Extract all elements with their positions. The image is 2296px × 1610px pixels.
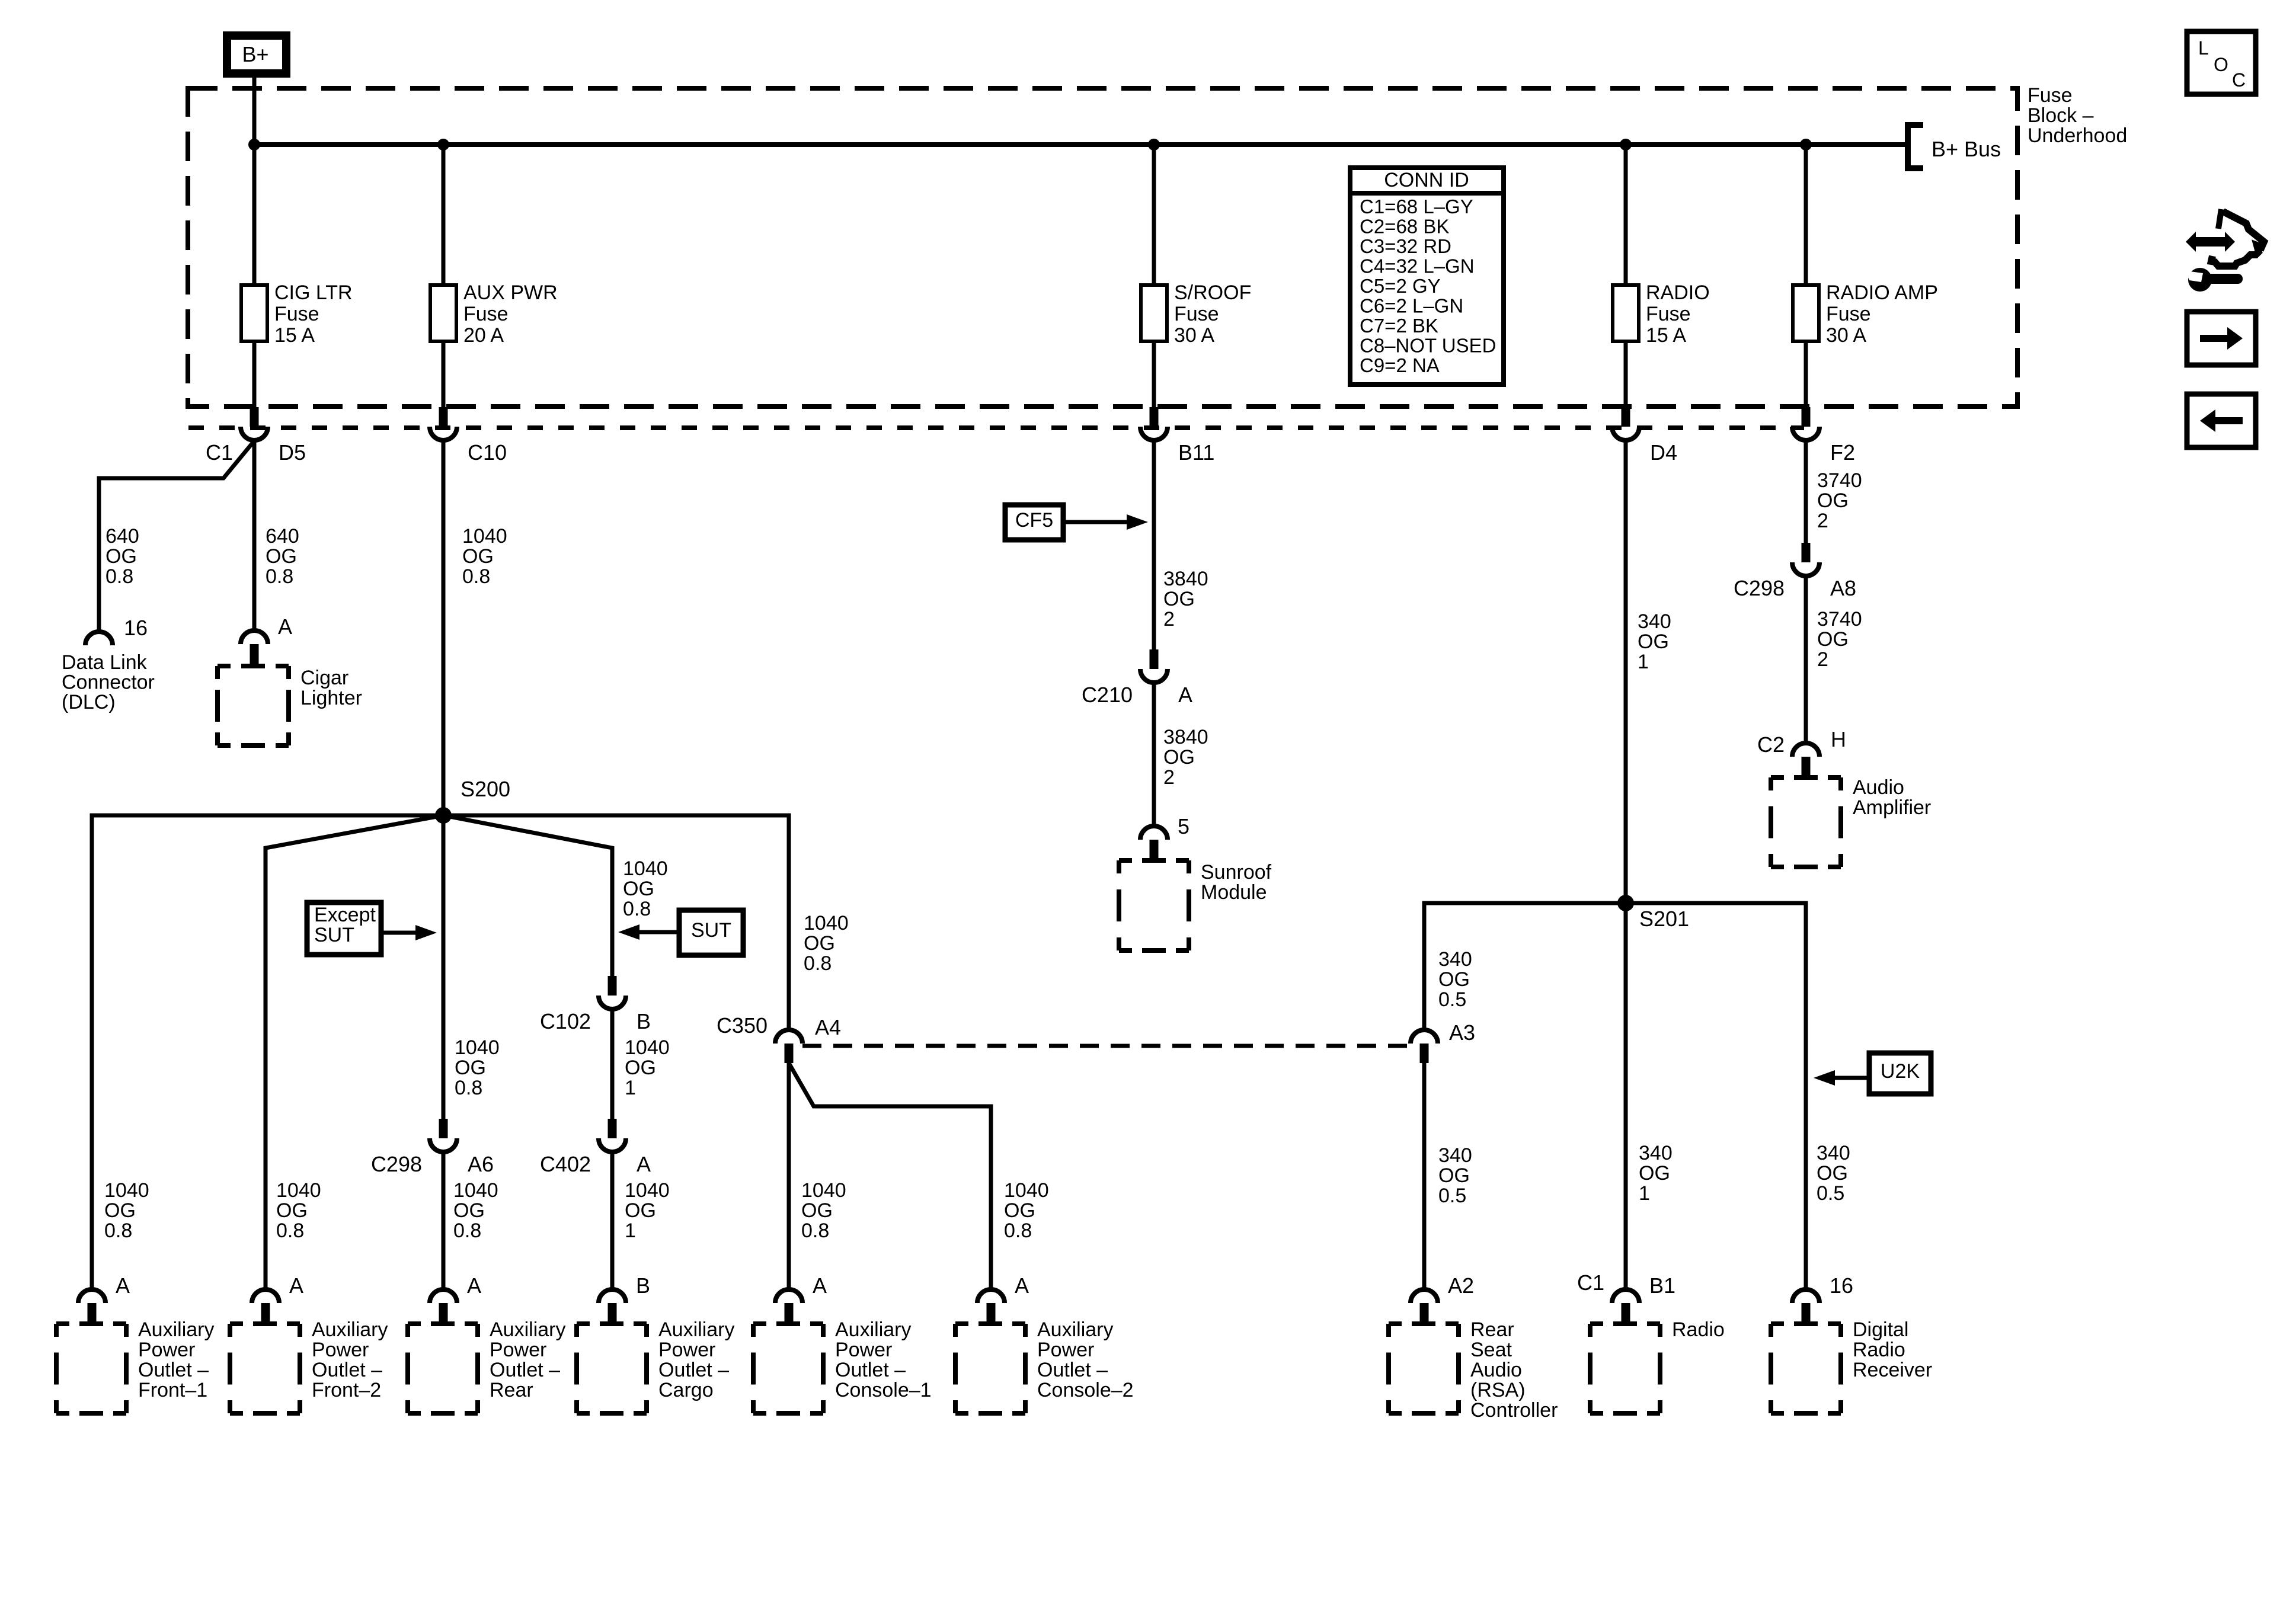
svg-text:A: A	[289, 1273, 303, 1298]
svg-text:A: A	[1015, 1273, 1029, 1298]
connector A3 pin	[1420, 1044, 1429, 1063]
connector C102/B pin	[608, 976, 617, 996]
connector C298/A6 socket arc	[430, 1138, 457, 1152]
audio amplifier box	[1771, 777, 1841, 867]
connector amp-H pin	[1802, 757, 1811, 776]
connector outlet-console-1-A pin	[785, 1303, 794, 1323]
svg-text:CONN ID: CONN ID	[1384, 169, 1469, 191]
svg-text:C102: C102	[540, 1009, 591, 1033]
CONN ID table box	[1350, 168, 1504, 385]
Except SUT tag box	[307, 902, 381, 955]
wire C298 to outlet rear	[442, 1152, 446, 1289]
connector DLC-16 socket arc	[85, 632, 113, 645]
connector outlet-front-1-A pin	[88, 1303, 97, 1323]
sunroof module box	[1119, 860, 1189, 950]
backward arrow	[2215, 417, 2243, 424]
svg-text:A: A	[813, 1273, 827, 1298]
wire RADIO fuse to connector	[1624, 341, 1628, 408]
wire B11 to C210	[1152, 441, 1156, 649]
fuse block underhood dashed box	[188, 88, 2017, 406]
svg-text:A: A	[116, 1273, 130, 1298]
B+ power feed symbol	[227, 36, 286, 73]
wire C210 to sunroof	[1152, 683, 1156, 826]
wire bus to RADIO fuse	[1624, 145, 1628, 285]
wire S200 to outlet front-2	[266, 815, 443, 1289]
svg-text:C2: C2	[1757, 732, 1785, 757]
connector C10 pin	[439, 407, 448, 427]
svg-text:A: A	[637, 1152, 651, 1176]
svg-text:CF5: CF5	[1015, 509, 1053, 532]
svg-text:A8: A8	[1830, 576, 1856, 600]
connector DRR-16 socket arc	[1792, 1289, 1819, 1303]
svg-text:H: H	[1831, 727, 1846, 751]
wire D5 to cigar lighter	[252, 441, 257, 630]
svg-text:5: 5	[1178, 814, 1189, 838]
wire S/ROOF fuse to connector	[1152, 341, 1156, 408]
connector outlet-console-1-A socket arc	[775, 1289, 802, 1303]
svg-text:O: O	[2214, 54, 2228, 75]
svg-text:A2: A2	[1448, 1273, 1474, 1298]
connector C298/A6 pin	[439, 1119, 448, 1138]
svg-text:S201: S201	[1639, 907, 1689, 931]
connector DRR-16 pin	[1802, 1303, 1811, 1323]
junction dot on B+ bus x=748	[437, 139, 449, 151]
connector C10 socket arc	[430, 427, 457, 440]
wire C102 to C402	[610, 1009, 615, 1119]
wire S201 to A3	[1424, 903, 1626, 1030]
svg-text:C298: C298	[1734, 576, 1785, 600]
vehicle service icon: double arrow	[2186, 232, 2235, 252]
connector radio-B1 socket arc	[1612, 1289, 1639, 1303]
cigar lighter box	[218, 666, 289, 745]
vehicle service icon: wrench	[2188, 268, 2212, 292]
fuse RADIO	[1613, 285, 1639, 341]
svg-text:A: A	[278, 614, 292, 639]
wire C350 to outlet console-1	[787, 1063, 791, 1289]
auxiliary power outlet rear box	[408, 1324, 478, 1413]
svg-text:A3: A3	[1449, 1020, 1475, 1045]
connector A3 socket arc	[1411, 1030, 1438, 1044]
B+ Bus bracket	[1908, 125, 1923, 168]
svg-text:AuxiliaryPowerOutlet –Front–1: AuxiliaryPowerOutlet –Front–1	[138, 1318, 214, 1401]
wire S200 to C350	[443, 815, 789, 1030]
wire F2 to C298	[1804, 441, 1808, 543]
connector outlet-front-1-A socket arc	[78, 1289, 105, 1303]
wire bus to RADIO AMP fuse	[1804, 145, 1808, 285]
SUT arrow	[639, 930, 679, 934]
connector C1/D5 socket arc	[241, 427, 268, 440]
wire S201 to digital radio receiver	[1626, 903, 1806, 1289]
junction dot on B+ bus x=429	[248, 139, 260, 151]
connector C210/A pin	[1150, 649, 1159, 669]
CF5 tag box	[1005, 505, 1063, 540]
connector F2 socket arc	[1792, 427, 1819, 440]
connector C350/A4 socket arc	[775, 1030, 802, 1044]
splice S201	[1617, 895, 1634, 911]
svg-text:C402: C402	[540, 1152, 591, 1176]
svg-text:16: 16	[1830, 1273, 1853, 1298]
CF5 arrow	[1063, 520, 1127, 524]
B+ bus wire	[254, 142, 1908, 147]
svg-text:C298: C298	[371, 1152, 422, 1176]
svg-text:C210: C210	[1082, 683, 1133, 707]
wire S200 to outlet front-1	[92, 815, 443, 1289]
wire B+ to bus	[252, 78, 257, 145]
LOC reference box	[2187, 31, 2256, 94]
wire RADIO AMP fuse to connector	[1804, 341, 1808, 408]
svg-text:L: L	[2198, 37, 2209, 59]
SUT tag box	[679, 910, 743, 955]
connector outlet-rear-A pin	[439, 1303, 448, 1323]
connector C298/A8 socket arc	[1792, 562, 1819, 576]
svg-text:16: 16	[124, 616, 148, 640]
wire A3 to A2	[1422, 1063, 1427, 1289]
svg-text:B11: B11	[1178, 440, 1214, 465]
dashed option wire C350 A4 to A3	[802, 1044, 1411, 1048]
junction dot on B+ bus x=2743	[1620, 139, 1632, 151]
connector outlet-console-2-A socket arc	[977, 1289, 1005, 1303]
svg-text:B: B	[637, 1009, 651, 1033]
U2K arrow	[1835, 1076, 1869, 1080]
connector D4 pin	[1622, 407, 1630, 427]
connector F2 pin	[1802, 407, 1811, 427]
connector C210/A socket arc	[1140, 669, 1168, 683]
forward reference arrow box	[2187, 312, 2256, 365]
fuse CIG LTR	[241, 285, 267, 341]
digital radio receiver box	[1771, 1324, 1841, 1413]
svg-text:A6: A6	[468, 1152, 494, 1176]
svg-text:B+ Bus: B+ Bus	[1932, 137, 2001, 161]
auxiliary power outlet console-1 box	[753, 1324, 823, 1413]
svg-text:SUT: SUT	[691, 919, 731, 942]
auxiliary power outlet front-1 box	[56, 1324, 126, 1413]
connector C298/A8 pin	[1802, 543, 1811, 562]
wire AUX PWR fuse to connector	[442, 341, 446, 408]
svg-text:S200: S200	[461, 777, 510, 801]
svg-text:U2K: U2K	[1881, 1060, 1920, 1083]
svg-text:A: A	[467, 1273, 481, 1298]
connector cigar-A pin	[250, 644, 259, 664]
connector C1/D5 pin	[250, 407, 259, 427]
connector outlet-console-2-A pin	[987, 1303, 996, 1323]
fuse S/ROOF	[1141, 285, 1167, 341]
connector radio-B1 pin	[1622, 1303, 1630, 1323]
svg-text:A4: A4	[815, 1015, 841, 1039]
svg-text:B: B	[636, 1273, 650, 1298]
svg-text:C1: C1	[206, 440, 233, 465]
svg-text:F2: F2	[1830, 440, 1855, 465]
auxiliary power outlet console-2 box	[955, 1324, 1025, 1413]
svg-text:C10: C10	[468, 440, 507, 465]
Except SUT arrow	[381, 931, 415, 935]
wire CIG LTR fuse to connector	[252, 341, 257, 408]
svg-text:D4: D4	[1650, 440, 1677, 465]
connector C402/A pin	[608, 1119, 617, 1138]
svg-text:Radio: Radio	[1672, 1318, 1725, 1341]
svg-text:B1: B1	[1649, 1273, 1675, 1298]
connector sunroof-5 socket arc	[1140, 826, 1168, 840]
connector B11 socket arc	[1140, 427, 1168, 440]
connector outlet-front-2-A pin	[261, 1303, 270, 1323]
svg-text:C: C	[2232, 69, 2246, 91]
connector RSA-A2 pin	[1420, 1303, 1429, 1323]
wire C10 to S200	[442, 441, 446, 815]
connector cigar-A socket arc	[241, 630, 268, 644]
wire S201 to radio	[1624, 903, 1628, 1289]
connector C102/B socket arc	[599, 996, 626, 1009]
connector C350/A4 pin	[785, 1044, 794, 1063]
splice S200	[435, 807, 452, 824]
connector outlet-cargo-B socket arc	[599, 1289, 626, 1303]
wire bus to S/ROOF fuse	[1152, 145, 1156, 285]
connector sunroof-5 pin	[1150, 840, 1159, 859]
wire S200 to C102	[443, 815, 612, 976]
forward arrow	[2200, 335, 2227, 342]
rear seat audio controller box	[1389, 1324, 1459, 1413]
radio box	[1590, 1324, 1660, 1413]
svg-text:C350: C350	[717, 1013, 768, 1038]
auxiliary power outlet front-2 box	[230, 1324, 300, 1413]
svg-text:C1: C1	[1577, 1270, 1604, 1295]
wire bus to CIG LTR fuse	[252, 145, 257, 285]
U2K tag box	[1869, 1053, 1931, 1094]
connector B11 pin	[1150, 407, 1159, 427]
junction dot on B+ bus x=1947	[1148, 139, 1160, 151]
svg-text:AuxiliaryPowerOutlet –Front–2: AuxiliaryPowerOutlet –Front–2	[312, 1318, 388, 1401]
connector D4 socket arc	[1612, 427, 1639, 440]
connector RSA-A2 socket arc	[1411, 1289, 1438, 1303]
wire bus to AUX PWR fuse	[442, 145, 446, 285]
fuse block connector face dotted line	[188, 425, 1804, 430]
svg-text:B+: B+	[242, 42, 268, 66]
backward reference arrow box	[2187, 394, 2256, 447]
vehicle service icon: vehicle outline	[2218, 209, 2221, 229]
wire C350 to outlet console-2	[789, 1063, 991, 1289]
svg-text:D5: D5	[279, 440, 306, 465]
connector C402/A socket arc	[599, 1138, 626, 1152]
junction dot on B+ bus x=3047	[1800, 139, 1812, 151]
wire D5 to DLC	[99, 441, 254, 632]
wire S200 to C298	[442, 815, 446, 1119]
connector amp-H socket arc	[1792, 743, 1819, 757]
wire D4 to S201	[1624, 441, 1628, 903]
fuse AUX PWR	[430, 285, 456, 341]
svg-text:SunroofModule: SunroofModule	[1201, 861, 1272, 904]
wire C298 to audio amplifier	[1804, 576, 1808, 743]
connector outlet-front-2-A socket arc	[252, 1289, 279, 1303]
fuse RADIO AMP	[1793, 285, 1819, 341]
svg-text:A: A	[1178, 683, 1192, 707]
wire C402 to outlet cargo	[610, 1152, 615, 1289]
CONN ID header separator	[1350, 191, 1504, 196]
connector outlet-rear-A socket arc	[430, 1289, 457, 1303]
auxiliary power outlet cargo box	[577, 1324, 647, 1413]
connector outlet-cargo-B pin	[608, 1303, 617, 1323]
